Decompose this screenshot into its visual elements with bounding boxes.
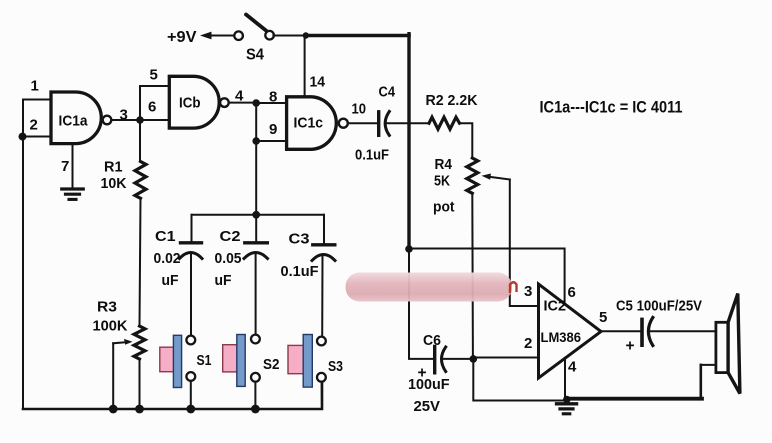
wire pin2 node to LM386 pin2 [473, 357, 538, 359]
wire node3 down to R1 [139, 120, 141, 161]
svg-text:10: 10 [352, 101, 367, 118]
wire IC1c output to C4 [348, 122, 377, 124]
svg-text:0.1uF: 0.1uF [281, 264, 319, 280]
wire IC1c pin9 [256, 140, 286, 142]
switch S4 blade [246, 15, 267, 32]
wire capacitor bus [192, 214, 325, 216]
svg-text:R3: R3 [97, 300, 117, 316]
svg-text:C1: C1 [155, 229, 176, 245]
speaker SPK1 [716, 322, 728, 372]
wire bus to C1 [191, 215, 193, 241]
svg-text:5: 5 [599, 309, 607, 326]
svg-text:4: 4 [568, 359, 577, 376]
svg-text:2: 2 [524, 335, 532, 352]
wire S4 to +9V node [273, 35, 305, 37]
node pin4 ground junction [563, 396, 571, 404]
svg-text:25V: 25V [414, 399, 441, 415]
node S1 bus junction [186, 405, 195, 414]
wire pin9 node down to capacitor bus [255, 141, 257, 215]
svg-text:14: 14 [310, 74, 326, 91]
svg-text:IC2: IC2 [544, 299, 567, 315]
svg-text:0.1uF: 0.1uF [355, 148, 389, 164]
wire R3 wiper down to bus [112, 343, 114, 409]
svg-text:+: + [626, 338, 635, 355]
wire IC1a output to node 3 [112, 119, 141, 121]
svg-text:C3: C3 [289, 232, 310, 248]
svg-text:C5 100uF/25V: C5 100uF/25V [616, 299, 702, 315]
svg-text:S3: S3 [328, 358, 343, 375]
capacitor C6 100uF 25V [433, 346, 436, 372]
wire C3 to S3 [321, 255, 323, 338]
svg-text:7: 7 [61, 158, 69, 175]
switch S3 pushbutton [288, 345, 304, 373]
svg-text:5: 5 [150, 67, 158, 84]
op-amp U1 IC2 LM386 [539, 284, 602, 378]
svg-text:IC1a: IC1a [59, 113, 89, 130]
svg-text:5K: 5K [434, 174, 450, 190]
wire rail down to C6 [409, 249, 433, 359]
switch S1 pushbutton [160, 347, 174, 372]
capacitor C4 0.1uF [377, 112, 380, 136]
svg-text:C4: C4 [379, 85, 396, 101]
wire node to LM386 pin6 [409, 249, 565, 306]
+9V arrow [206, 35, 234, 37]
ground symbol (LM386 pin4) [557, 402, 577, 405]
node C2 bus junction [252, 211, 260, 219]
svg-text:+9V: +9V [167, 29, 197, 46]
capacitor C3 0.1uF [313, 243, 335, 246]
node 3 junction [136, 116, 144, 124]
resistor R4 5K pot [467, 158, 478, 193]
wire pin2 of IC1a [23, 136, 51, 138]
wire bottom-left ground bus [23, 381, 322, 409]
node R3 wiper on bus [109, 405, 118, 414]
svg-text:6: 6 [148, 99, 156, 116]
wire ICb input bracket pin5 [140, 86, 169, 120]
wire ICb output node 4 [229, 102, 257, 104]
svg-text:pot: pot [433, 200, 455, 216]
svg-text:ICb: ICb [179, 95, 201, 112]
node R3 bottom on bus [135, 405, 144, 414]
capacitor C5 100uF/25V [640, 319, 644, 345]
svg-text:9: 9 [269, 121, 277, 138]
R4 wiper arrow [489, 177, 510, 180]
wire bus to C2 [255, 215, 257, 241]
switch S2 pushbutton [223, 345, 238, 372]
wire LM386 pin5 output to C5 [601, 330, 640, 332]
svg-text:LM386: LM386 [541, 329, 582, 345]
wire bus to C3 [323, 215, 325, 243]
svg-text:6: 6 [568, 284, 576, 301]
wire C5 to speaker [651, 330, 716, 332]
resistor R1 10K [135, 162, 146, 199]
NAND gate IC1a [51, 92, 101, 144]
R3 wiper arrow [113, 342, 126, 343]
svg-text:4: 4 [235, 88, 244, 105]
wire C2 to S2 [255, 253, 257, 336]
svg-text:IC1c: IC1c [294, 115, 324, 132]
capacitor C2 0.05uF [245, 241, 267, 244]
node +9V top junction [303, 32, 309, 38]
wire R1 bottom to R3 top [140, 198, 141, 326]
wire R4 bottom down to pin2 node [472, 193, 473, 359]
watermark red n mark [510, 282, 517, 293]
svg-text:3: 3 [120, 107, 128, 124]
capacitor C1 0.02uF [181, 241, 202, 244]
svg-text:2: 2 [30, 117, 38, 134]
svg-text:100K: 100K [93, 319, 129, 335]
svg-text:R4: R4 [435, 157, 453, 173]
svg-text:uF: uF [215, 273, 232, 289]
wire speaker return horizontal [701, 364, 716, 366]
wire S2 to bus [254, 382, 256, 410]
node pin2 junction [470, 355, 478, 363]
wire speaker return vertical [699, 365, 702, 399]
switch S4 contact right [265, 31, 274, 40]
wire IC1c pin14 up to +9V line [304, 36, 306, 97]
svg-text:S4: S4 [246, 47, 264, 64]
svg-text:C6: C6 [423, 333, 441, 349]
switch S4 contact left [234, 31, 243, 40]
svg-text:uF: uF [162, 273, 179, 289]
NAND gate IC1c [287, 97, 337, 150]
wire R3 bottom to bus [139, 359, 141, 409]
ground symbol (IC1a pin7) [62, 187, 83, 190]
wire LM386 pin4 down [564, 359, 566, 400]
wire S3 to bus corner [321, 382, 323, 410]
resistor R3 100K [134, 326, 145, 359]
wire ICb pin6 [140, 119, 169, 121]
wire node4 down to pin9 node [255, 103, 257, 141]
node 4 junction [252, 99, 260, 107]
wire pin1 of IC1a [23, 99, 51, 101]
wire thick ground bus to speaker corner [567, 397, 702, 401]
svg-text:S1: S1 [197, 352, 212, 369]
svg-text:10K: 10K [101, 176, 128, 192]
wire R4 wiper down to pin3 [510, 180, 539, 307]
wire S1 to bus [190, 381, 192, 409]
wire IC1c pin8 [256, 102, 286, 104]
node S2 bus junction [251, 405, 260, 414]
wire R2 to R4 top [460, 123, 473, 158]
node pin9 junction [252, 137, 260, 145]
wire C1 to S1 [190, 253, 192, 337]
svg-text:1: 1 [31, 78, 39, 95]
svg-text:8: 8 [269, 89, 277, 106]
svg-text:0.05: 0.05 [215, 251, 242, 267]
NAND gate ICb [169, 76, 219, 128]
svg-text:R1: R1 [104, 160, 123, 176]
resistor R2 2.2K [429, 117, 460, 129]
svg-text:S2: S2 [263, 356, 280, 373]
svg-text:0.02: 0.02 [154, 251, 181, 267]
wire IC1a pin7 to ground [72, 144, 74, 188]
wire +9V thick top [306, 34, 409, 38]
svg-text:3: 3 [524, 283, 532, 300]
svg-text:R2 2.2K: R2 2.2K [426, 93, 479, 109]
svg-text:100uF: 100uF [408, 377, 450, 393]
node pin2/rail junction [19, 133, 27, 141]
svg-text:IC1a---IC1c = IC 4011: IC1a---IC1c = IC 4011 [540, 98, 683, 117]
wire +9V thick vertical rail [407, 34, 410, 249]
node +9V to pin6 junction [405, 245, 413, 253]
wire C6 to pin2 node [444, 358, 473, 360]
wire C4 to R2 (crosses rail) [388, 122, 430, 124]
wire pin2 node down to ground bus [473, 359, 567, 401]
svg-text:C2: C2 [220, 229, 241, 245]
wire left rail (pins 1-2 bracket down to bottom bus) [22, 100, 24, 410]
